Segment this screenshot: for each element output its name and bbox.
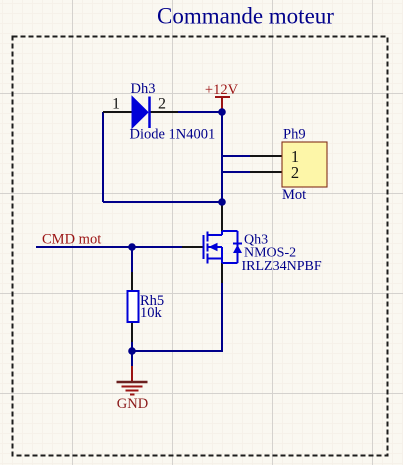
connector Ph9 (282, 142, 327, 187)
ground GND (117, 351, 149, 412)
wire source down and left to ground junction (132, 282, 222, 351)
connector Ph9 pin 2 number (291, 163, 299, 182)
junction at ground node (128, 347, 136, 355)
resistor Rh5 bottom pin (131, 322, 133, 342)
svg-text:2: 2 (291, 163, 299, 182)
diode Dh3 pin 2 number (158, 96, 166, 113)
svg-text:1: 1 (112, 96, 120, 113)
junction at gate node (128, 243, 136, 251)
resistor Rh5 (128, 291, 139, 322)
connector Ph9 value label Mot (282, 187, 306, 203)
wire resistor bottom to ground junction (131, 341, 133, 351)
resistor Rh5 value label (140, 305, 163, 321)
transistor Qh3 gate pin (182, 246, 203, 248)
transistor Qh3 part number label (242, 259, 322, 274)
wire CMD mot to gate (36, 246, 184, 248)
transistor Qh3 drain pin (221, 203, 223, 231)
wire connector pin 2 branch (222, 171, 252, 173)
svg-text:GND: GND (117, 396, 148, 412)
diode Dh3 value label (130, 127, 216, 143)
junction at +12V node (218, 108, 226, 116)
svg-text:2: 2 (158, 96, 166, 113)
diode Dh3 pin 2 (150, 111, 178, 113)
connector Ph9 pin 2 line (250, 171, 282, 173)
svg-text:CMD mot: CMD mot (42, 232, 101, 248)
wire vertical from +12V junction down to drain junction (221, 112, 223, 202)
svg-text:Mot: Mot (282, 187, 306, 203)
diode Dh3 pin 1 number (112, 96, 120, 113)
resistor Rh5 top pin (131, 272, 133, 291)
svg-text:Diode 1N4001: Diode 1N4001 (130, 127, 216, 143)
transistor Qh3 type label (244, 246, 296, 261)
diode Dh3 pin 1 (103, 111, 132, 113)
diode Dh3 designator label (131, 81, 156, 97)
wire net +12V horizontal from diode cathode to junction (177, 111, 222, 113)
svg-text:Commande moteur: Commande moteur (157, 4, 334, 29)
wire connector pin 1 branch (222, 155, 252, 157)
wire left loop vertical from diode anode corner down (102, 112, 104, 202)
resistor Rh5 designator label (140, 293, 164, 309)
junction at drain node (218, 198, 226, 206)
connector Ph9 designator label (283, 127, 306, 143)
net label CMD mot (42, 232, 101, 248)
connector Ph9 pin 1 line (250, 155, 282, 157)
svg-text:Dh3: Dh3 (131, 81, 156, 97)
transistor Qh3 designator label (244, 233, 268, 248)
connector Ph9 pin 1 number (291, 147, 299, 166)
transistor Qh3 source pin (221, 263, 223, 283)
power +12V (205, 82, 239, 112)
diode Dh3 (132, 97, 150, 129)
svg-text:IRLZ34NPBF: IRLZ34NPBF (242, 259, 322, 274)
svg-text:10k: 10k (140, 305, 163, 321)
wire left loop horizontal to drain junction (103, 201, 222, 203)
svg-text:Ph9: Ph9 (283, 127, 306, 143)
transistor Qh3 (204, 231, 243, 264)
svg-text:+12V: +12V (205, 82, 239, 98)
wire gate junction down to resistor (131, 247, 133, 274)
